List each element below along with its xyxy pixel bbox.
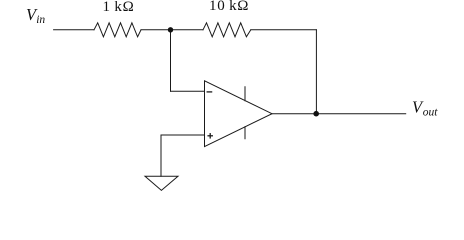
op-amp U1 V+ power stub	[244, 87, 246, 101]
wire right vertical feedback drop	[315, 30, 317, 114]
op-amp U1 triangle	[205, 81, 273, 147]
op-amp minus sign	[207, 91, 211, 93]
resistor R2	[203, 23, 251, 37]
node A junction dot	[168, 27, 173, 32]
op-amp plus sign	[208, 135, 212, 137]
svg-text:1 kΩ: 1 kΩ	[103, 0, 135, 15]
wire noninverting input to ground leg	[161, 135, 205, 176]
op-amp U1 V- power stub	[244, 127, 246, 139]
svg-text:out: out	[423, 106, 439, 118]
svg-text:in: in	[36, 14, 45, 26]
wire to inverting input	[171, 90, 205, 92]
wire input Vin to R1	[54, 29, 94, 31]
wire output	[272, 113, 406, 115]
wire R1 to R2 through node A	[141, 29, 203, 31]
wire node A down	[170, 30, 172, 91]
ground	[145, 176, 178, 190]
resistor R1	[94, 23, 141, 37]
output node junction dot	[313, 111, 319, 117]
wire R2 to right corner	[251, 29, 317, 31]
svg-text:10 kΩ: 10 kΩ	[209, 0, 249, 14]
